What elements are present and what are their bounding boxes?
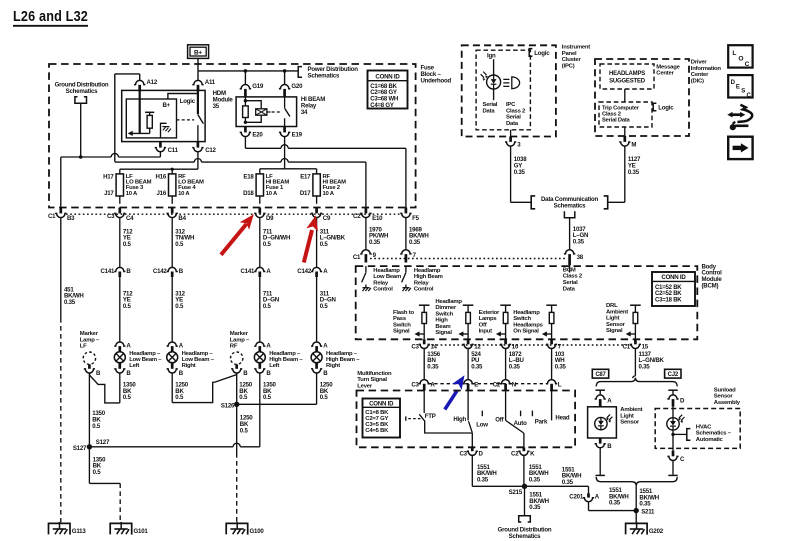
wire S215 to C201: [525, 485, 589, 487]
ground G100: [226, 523, 248, 534]
svg-text:10 A: 10 A: [323, 191, 335, 197]
wire marker LF down to S127: [88, 373, 90, 447]
svg-text:Signal: Signal: [435, 330, 452, 336]
connector 10 BCM bottom: [504, 339, 507, 344]
HEADLAMPS SUGGESTED box: [600, 64, 654, 89]
svg-text:14: 14: [430, 344, 437, 351]
svg-text:Off: Off: [479, 322, 487, 328]
svg-text:0.5: 0.5: [263, 394, 272, 401]
svg-text:10 A: 10 A: [178, 191, 190, 197]
svg-text:G19: G19: [252, 83, 264, 90]
svg-text:Schematics: Schematics: [308, 72, 341, 79]
BCM high beam relay control switch: [405, 266, 407, 272]
svg-text:Headlamp: Headlamp: [373, 268, 400, 274]
svg-text:Auto: Auto: [514, 420, 527, 427]
svg-text:E19: E19: [292, 132, 303, 139]
connector C12 of HDM: [197, 142, 200, 148]
svg-text:High: High: [453, 416, 466, 423]
svg-text:M: M: [631, 141, 636, 148]
resistor HDM bias: [145, 111, 154, 113]
High contact from E: [467, 391, 469, 421]
svg-text:G20: G20: [291, 83, 303, 90]
red arrow pointing at C9: [304, 230, 312, 263]
fuse block underhood dashed box: [49, 64, 416, 208]
connector D sunload sensor: [668, 389, 677, 391]
svg-text:0.5: 0.5: [175, 241, 184, 248]
svg-text:L: L: [558, 381, 562, 388]
ground G113: [49, 523, 71, 534]
wire D to S215: [471, 456, 473, 487]
svg-text:Switch: Switch: [435, 311, 453, 317]
svg-text:L26 and L32: L26 and L32: [13, 9, 88, 25]
junction ground distribution: [79, 155, 83, 159]
svg-text:Class 2: Class 2: [506, 108, 526, 114]
dotted connector line BCM top: [370, 258, 565, 260]
svg-text:A12: A12: [147, 79, 158, 86]
wire S215 to ground distribution: [524, 486, 526, 516]
icon service arrows and wrench: [731, 113, 743, 116]
svg-text:Headlamp: Headlamp: [414, 268, 441, 274]
svg-text:FTP: FTP: [425, 413, 436, 420]
svg-text:G101: G101: [134, 528, 149, 535]
connector E19 of relay: [283, 127, 286, 133]
connector C142 B: [167, 267, 178, 271]
connector 14 BCM bottom: [423, 339, 426, 344]
svg-text:Low Beam: Low Beam: [373, 274, 401, 280]
svg-text:Exterior: Exterior: [479, 310, 500, 316]
svg-text:C4=8 GY: C4=8 GY: [370, 103, 394, 109]
svg-text:B3: B3: [67, 215, 75, 222]
svg-text:C4: C4: [126, 215, 134, 222]
svg-text:C3=5 BK: C3=5 BK: [365, 422, 389, 428]
svg-text:C2=7 GY: C2=7 GY: [365, 416, 388, 422]
DIC driver information center dashed box: [595, 59, 689, 136]
relay coil bowtie: [256, 109, 267, 115]
BCM driver Exterior Input: [500, 304, 511, 306]
svg-text:0.35: 0.35: [427, 364, 439, 371]
svg-text:Center: Center: [656, 71, 674, 77]
connector 9 BCM: [360, 250, 371, 254]
lamp Headlamp – High Beam – Right: [311, 342, 322, 346]
relay switch: [284, 97, 286, 108]
svg-text:Signal: Signal: [606, 328, 623, 334]
icon LOC box: [728, 45, 752, 67]
BCM driver Headlamp Signal: [463, 304, 474, 306]
svg-text:B+: B+: [163, 102, 171, 109]
wire C12 to low beam fuses: [197, 152, 199, 169]
dashed control link HDM: [177, 119, 195, 121]
svg-text:10 A: 10 A: [126, 191, 138, 197]
connector C9 fuse block bottom: [315, 208, 318, 214]
connector K lever bottom: [523, 447, 526, 451]
icon forward arrow box: [728, 137, 752, 159]
svg-text:C1=52 BK: C1=52 BK: [655, 285, 682, 291]
connector B4 fuse block bottom: [171, 208, 174, 214]
ground G101: [110, 523, 132, 534]
svg-text:C87: C87: [595, 372, 606, 378]
svg-text:0.5: 0.5: [263, 303, 272, 310]
svg-text:On Signal: On Signal: [513, 329, 539, 335]
svg-text:Relay: Relay: [414, 280, 430, 286]
svg-text:0.5: 0.5: [123, 241, 132, 248]
HDM logic notch: [168, 94, 198, 100]
svg-text:C3: C3: [107, 213, 115, 220]
svg-text:High: High: [435, 318, 448, 324]
wire marker RF step to low beam right: [172, 373, 236, 402]
svg-text:SUGGESTED: SUGGESTED: [609, 79, 646, 85]
svg-text:C142: C142: [153, 268, 168, 275]
svg-text:C141: C141: [240, 268, 255, 275]
svg-text:C2: C2: [511, 451, 519, 458]
svg-text:E20: E20: [252, 132, 263, 139]
svg-text:Underhood: Underhood: [421, 78, 452, 85]
svg-text:Switch: Switch: [513, 316, 531, 322]
splice S215: [522, 484, 527, 489]
svg-text:E17: E17: [300, 174, 311, 181]
svg-text:0.35: 0.35: [409, 239, 421, 246]
svg-text:Beam: Beam: [435, 324, 450, 330]
svg-text:Trip Computer: Trip Computer: [602, 105, 640, 111]
label Logic DIC: [653, 103, 656, 111]
svg-text:10 A: 10 A: [266, 191, 278, 197]
svg-text:LF: LF: [80, 344, 87, 350]
svg-text:DRL: DRL: [606, 303, 618, 309]
svg-text:0.5: 0.5: [239, 394, 248, 401]
svg-text:Schematics: Schematics: [554, 203, 587, 210]
svg-text:G202: G202: [649, 528, 664, 535]
dashed connector line lever top: [428, 383, 548, 385]
connector 7 BCM: [400, 250, 411, 254]
svg-text:Data: Data: [506, 121, 519, 127]
svg-text:G113: G113: [72, 528, 87, 535]
svg-text:Schematics: Schematics: [509, 533, 542, 540]
wire 451 BK/WH 0.35: [60, 218, 62, 318]
svg-text:Information: Information: [691, 66, 722, 72]
icon DESC box: [728, 75, 752, 97]
arrow HDM output left: [131, 132, 150, 134]
junction fuse4 feed: [171, 168, 174, 171]
BCM driver Flash to Signal: [419, 304, 430, 306]
wire 1137 split hook: [633, 376, 636, 378]
svg-text:Serial: Serial: [506, 115, 521, 121]
svg-text:Panel: Panel: [562, 51, 577, 57]
svg-text:0.5: 0.5: [240, 427, 249, 434]
bracket data comm down: [564, 211, 574, 217]
blue arrow pointing at High input: [445, 390, 457, 409]
ground symbol inside HDM: [161, 123, 167, 138]
node G20 tap: [283, 69, 287, 73]
svg-text:B+: B+: [194, 50, 202, 57]
svg-text:Turn Signal: Turn Signal: [357, 377, 387, 383]
svg-text:(DIC): (DIC): [691, 79, 704, 85]
HI BEAM relay 34 box: [236, 97, 297, 127]
svg-text:F5: F5: [412, 215, 420, 222]
node G19 tap: [244, 69, 248, 73]
svg-text:C3: C3: [411, 381, 419, 388]
connector C4 fuse block bottom: [118, 208, 121, 214]
connector 12 BCM bottom: [467, 339, 470, 344]
BCM body control module dashed box: [356, 266, 698, 339]
svg-text:C4=5 BK: C4=5 BK: [365, 428, 389, 434]
svg-text:S215: S215: [509, 489, 523, 496]
svg-text:C1=8 BK: C1=8 BK: [365, 410, 389, 416]
svg-text:CONN ID: CONN ID: [661, 274, 686, 281]
Trip Computer box: [599, 102, 652, 127]
svg-text:C2=68 GY: C2=68 GY: [370, 90, 397, 96]
svg-text:C1=68 BK: C1=68 BK: [370, 84, 397, 90]
svg-text:0.35: 0.35: [529, 477, 541, 484]
headlamp beam icon: [503, 79, 509, 86]
svg-text:Logic: Logic: [658, 105, 674, 112]
ground G202: [626, 523, 648, 534]
svg-text:Pass: Pass: [393, 316, 407, 322]
svg-text:High Beam: High Beam: [414, 274, 443, 280]
connector C141 A: [254, 267, 265, 271]
svg-text:0.35: 0.35: [477, 477, 489, 484]
svg-text:Automatic: Automatic: [696, 437, 724, 443]
svg-text:0.35: 0.35: [471, 364, 483, 371]
wire 1969 BK/WH 0.35: [405, 218, 407, 250]
svg-text:HEADLAMPS: HEADLAMPS: [609, 71, 645, 77]
svg-text:0.5: 0.5: [92, 423, 101, 430]
wire A12 feed from corner: [115, 73, 140, 75]
connector E turn signal lever: [463, 380, 474, 384]
svg-text:Instrument: Instrument: [562, 44, 590, 50]
svg-text:Control: Control: [414, 287, 434, 293]
svg-text:Lamp –: Lamp –: [80, 337, 100, 343]
svg-text:C: C: [745, 61, 750, 68]
wire 1137 L-GN/BK 0.35: [634, 349, 636, 376]
dotted connector line BCM bottom: [428, 344, 631, 346]
svg-text:0.5: 0.5: [320, 394, 329, 401]
wire ground distribution down to C11 ground line: [80, 103, 82, 157]
svg-text:C1: C1: [353, 254, 361, 261]
wire marker LF step to low beam left: [90, 373, 120, 403]
svg-text:Ign: Ign: [487, 53, 496, 60]
svg-text:0.35: 0.35: [609, 500, 621, 507]
connector 7 BCM bottom: [550, 339, 553, 344]
wire E20 to F5 high beam relay control: [244, 137, 246, 149]
svg-text:0.35: 0.35: [639, 501, 651, 508]
wire S211 to G202: [635, 511, 637, 523]
svg-text:Schematics: Schematics: [66, 88, 99, 95]
HDM inner box: [126, 99, 176, 138]
svg-text:Center: Center: [691, 72, 709, 78]
svg-text:0.35: 0.35: [555, 364, 567, 371]
BCM driver Headlamp On Signal: [546, 304, 557, 306]
wire 1872 L-BU 0.35: [505, 349, 507, 380]
sunload sensor assembly dashed box: [655, 409, 740, 449]
svg-text:Marker: Marker: [230, 331, 249, 337]
svg-text:N: N: [512, 381, 516, 388]
B+ battery feed box: [188, 45, 209, 59]
svg-text:C2=52 BK: C2=52 BK: [655, 291, 682, 297]
connector L turn signal lever: [546, 380, 557, 384]
wire 1127 YE 0.35: [624, 146, 626, 202]
svg-text:Data: Data: [563, 287, 576, 293]
svg-text:C3: C3: [411, 344, 419, 351]
wire 311 D-GN lower: [316, 277, 318, 342]
svg-text:(BCM): (BCM): [702, 283, 719, 290]
connector D9 fuse block bottom: [258, 208, 261, 214]
connector E20 of relay: [244, 127, 247, 133]
ambient light sensor box: [588, 407, 617, 438]
wire vertical drop x=114.8 to low-beam-relay-control rail: [114, 74, 116, 161]
svg-text:0.35: 0.35: [562, 479, 574, 486]
BCM driver DRL Signal: [630, 304, 641, 306]
svg-text:J16: J16: [156, 190, 166, 197]
wire low beam relay control rail to E10: [114, 160, 116, 163]
svg-text:C3=68 WH: C3=68 WH: [370, 97, 398, 103]
multifunction turn signal lever dashed box: [357, 391, 576, 448]
svg-text:CONN ID: CONN ID: [375, 73, 400, 80]
svg-text:C: C: [747, 93, 752, 99]
wire K to S215: [523, 456, 525, 487]
svg-text:IPC: IPC: [506, 102, 516, 108]
relay coil circuit: [244, 97, 246, 101]
CONN ID table fuse block: [368, 71, 408, 109]
svg-text:E: E: [474, 381, 478, 388]
svg-text:C142: C142: [297, 268, 312, 275]
fuse Fuse 4 H16/J16: [169, 174, 176, 196]
svg-text:Assembly: Assembly: [714, 400, 741, 406]
svg-text:D18: D18: [243, 190, 254, 197]
lamp Headlamp – Low Beam – Right: [167, 342, 178, 346]
svg-text:Class 2: Class 2: [563, 274, 583, 280]
svg-text:Input: Input: [479, 329, 493, 335]
wire 103 WH 0.35: [551, 349, 553, 380]
FTP flash to pass switch: [423, 391, 425, 413]
svg-text:Headlamp: Headlamp: [435, 299, 462, 305]
svg-text:Class 2: Class 2: [602, 112, 621, 118]
svg-text:E10: E10: [372, 215, 383, 222]
svg-text:38: 38: [577, 254, 584, 261]
wire B+ down to rail: [197, 58, 199, 71]
svg-text:Control: Control: [373, 287, 393, 293]
svg-text:C1: C1: [48, 213, 56, 220]
svg-text:C12: C12: [205, 147, 216, 154]
switch inside HDM from A11: [197, 90, 199, 115]
wire 1356 BN 0.35: [423, 349, 425, 380]
svg-text:0.35: 0.35: [509, 364, 521, 371]
connector G19 of relay: [244, 71, 246, 85]
svg-text:C1: C1: [623, 344, 631, 351]
connector G20 of relay: [284, 71, 286, 85]
fuse Fuse 1 E18/D18: [256, 174, 263, 196]
svg-text:Data: Data: [483, 108, 496, 114]
wire 712 YE 0.5 lower: [119, 277, 121, 342]
connector C141 B: [114, 267, 125, 271]
connector B ambient light sensor: [599, 438, 602, 444]
red arrow pointing at D9: [221, 224, 247, 255]
svg-text:Left: Left: [269, 363, 279, 369]
svg-text:Lever: Lever: [357, 384, 373, 390]
svg-text:C141: C141: [100, 268, 115, 275]
svg-text:S211: S211: [641, 508, 655, 515]
brace split to C87 and CJ2: [596, 378, 677, 387]
lamp Headlamp – High Beam – Left: [254, 342, 265, 346]
connector 15 BCM bottom: [634, 339, 637, 344]
svg-text:0.5: 0.5: [320, 303, 329, 310]
data communication schematics reference: [531, 196, 535, 209]
wire 1970 PK/WH 0.35: [365, 218, 367, 250]
wire marker RF down to S126: [236, 373, 238, 404]
svg-text:0.5: 0.5: [263, 241, 272, 248]
svg-text:H17: H17: [103, 174, 114, 181]
HDM module 35 outer box: [122, 90, 205, 141]
IPC inner dashed box: [476, 50, 530, 130]
svg-text:Cluster: Cluster: [562, 57, 582, 63]
svg-text:Switch: Switch: [393, 322, 411, 328]
svg-text:Ambient: Ambient: [606, 309, 628, 315]
BCM low beam relay control switch: [365, 266, 367, 272]
svg-text:Serial: Serial: [563, 280, 578, 286]
brace merge sensor grounds: [596, 477, 677, 486]
svg-text:Headlamp: Headlamp: [513, 310, 540, 316]
dotted connector line fuse block bottom: [66, 213, 401, 215]
svg-text:34: 34: [301, 109, 308, 116]
svg-text:0.5: 0.5: [320, 241, 329, 248]
svg-text:C2: C2: [353, 213, 361, 220]
svg-text:D9: D9: [266, 215, 274, 222]
wire 1038 GY 0.35: [510, 146, 512, 202]
svg-text:HVAC: HVAC: [696, 424, 712, 430]
Off Auto Park Head switch: [505, 391, 507, 421]
splice S211: [634, 508, 639, 513]
svg-text:Lamps: Lamps: [479, 316, 498, 322]
connector F5 fuse block bottom: [405, 208, 408, 214]
svg-text:Sensor: Sensor: [606, 322, 626, 328]
fuse Fuse 3 H17/J17: [116, 174, 123, 196]
svg-text:C201: C201: [569, 493, 584, 500]
svg-text:10: 10: [512, 344, 519, 351]
relay dashed link: [272, 111, 282, 113]
svg-text:0.5: 0.5: [93, 469, 102, 476]
svg-text:Left: Left: [129, 363, 139, 369]
wire C11 to B3 ground line: [159, 152, 161, 157]
svg-text:0.5: 0.5: [123, 303, 132, 310]
lever CONN ID table: [363, 399, 401, 438]
svg-text:C2: C2: [493, 381, 501, 388]
wire 711 D-GN lower: [259, 277, 261, 342]
svg-text:C9: C9: [323, 215, 331, 222]
wire 524 PU 0.35: [467, 349, 469, 380]
label Logic IPC: [529, 49, 532, 57]
svg-text:0.5: 0.5: [123, 394, 132, 401]
svg-text:0.35: 0.35: [639, 364, 651, 371]
svg-text:Relay: Relay: [373, 280, 389, 286]
wire high beam left ground: [259, 373, 261, 447]
connector 38 BCM: [564, 250, 575, 254]
svg-text:S127: S127: [96, 439, 110, 446]
bracket ground distribution reference: [75, 97, 87, 104]
svg-text:Ambient: Ambient: [620, 407, 642, 413]
svg-text:S127: S127: [73, 445, 87, 452]
svg-text:35: 35: [213, 103, 220, 110]
IPC instrument panel cluster dashed box: [462, 45, 556, 136]
svg-text:Logic: Logic: [534, 50, 550, 57]
svg-text:Off: Off: [495, 416, 504, 423]
svg-text:C3=18 BK: C3=18 BK: [655, 298, 682, 304]
svg-text:RF: RF: [230, 344, 238, 350]
svg-text:G100: G100: [250, 528, 265, 535]
svg-text:Serial: Serial: [483, 102, 498, 108]
wire 712 YE 0.5: [119, 218, 121, 268]
svg-text:12: 12: [474, 344, 481, 351]
BCM CONN ID table: [652, 272, 695, 306]
svg-text:Sensor: Sensor: [714, 394, 734, 400]
wire 312 YE 0.5 lower: [171, 277, 173, 342]
